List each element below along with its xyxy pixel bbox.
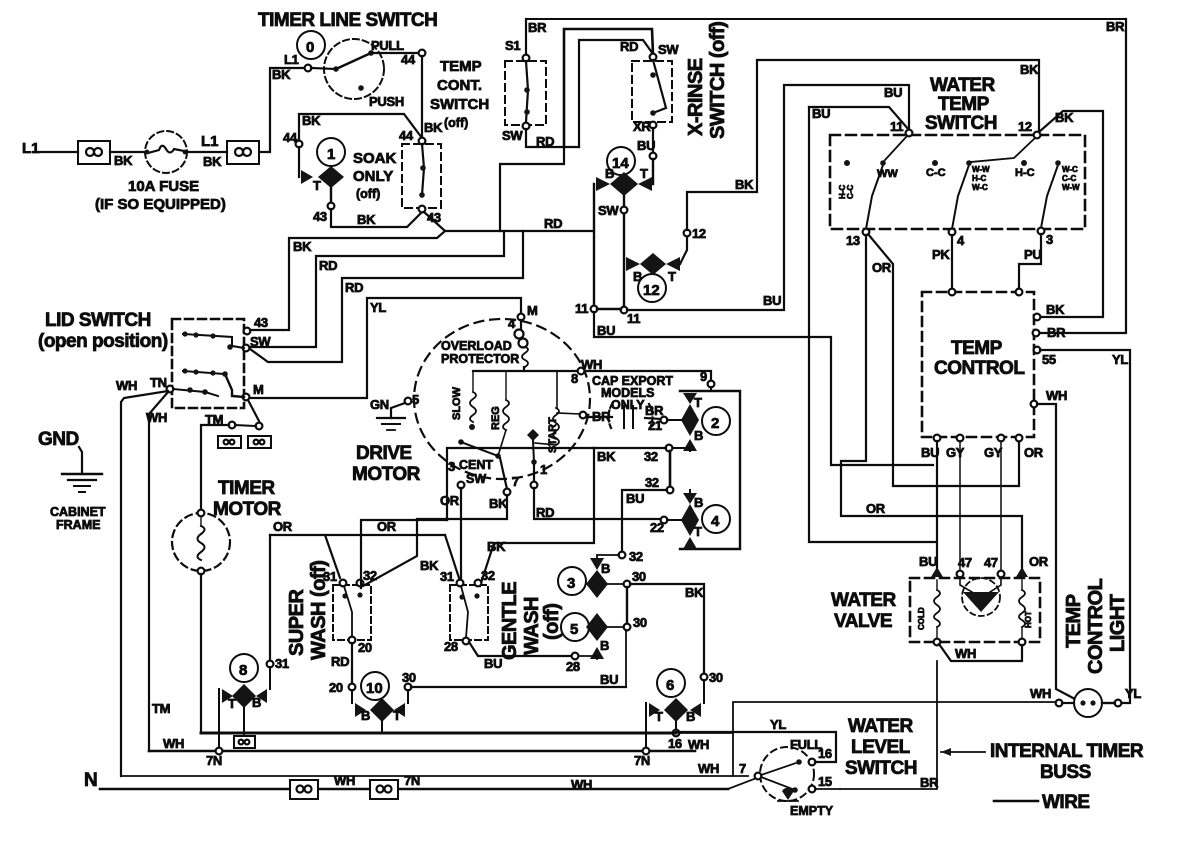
lid switch arm 2 <box>183 371 225 374</box>
wire bus to light <box>679 702 1056 733</box>
svg-text:T: T <box>228 696 236 711</box>
wire 30 to BU riser <box>411 686 626 688</box>
temp control bottom contacts <box>934 435 941 442</box>
wire RD run 2 <box>250 231 523 362</box>
svg-text:L1: L1 <box>284 52 299 67</box>
wire BK 32 <box>594 447 666 449</box>
svg-text:GND: GND <box>38 429 79 450</box>
valve 47 terminals <box>957 571 964 578</box>
flag 6 <box>703 680 705 703</box>
wire cent arm to 7 <box>500 458 507 489</box>
flag 12 (timer contact) <box>626 257 640 271</box>
wire inner loop <box>564 29 653 147</box>
node 7N right <box>643 748 650 755</box>
timer cam circle 5 <box>561 613 589 641</box>
svg-text:BK: BK <box>272 67 291 82</box>
svg-text:BU: BU <box>637 138 655 153</box>
svg-text:MOTOR: MOTOR <box>352 464 421 485</box>
svg-text:8: 8 <box>571 371 578 386</box>
wire 30 to BK riser <box>630 584 704 674</box>
svg-text:SUPER: SUPER <box>286 589 308 656</box>
empty symbol <box>782 788 795 800</box>
node 32 lower <box>667 487 674 494</box>
svg-text:B: B <box>694 428 703 443</box>
node 55 <box>1034 347 1041 354</box>
svg-text:W-C: W-C <box>972 183 988 192</box>
node WH out <box>1031 401 1038 408</box>
pole 2 arm <box>952 165 969 229</box>
svg-text:C-C: C-C <box>926 167 946 179</box>
wire OR from cent 3 <box>460 488 462 578</box>
svg-text:BR: BR <box>645 403 664 418</box>
wire BK from 7 to super wash 32 <box>363 495 507 586</box>
wire flag14 B drop <box>593 184 595 309</box>
timer cam circle 4 <box>702 505 730 533</box>
svg-text:EMPTY: EMPTY <box>790 804 834 818</box>
svg-text:1: 1 <box>327 146 335 163</box>
node 9 <box>708 381 715 388</box>
node 20 lower <box>349 684 356 691</box>
node 16 full <box>809 759 816 766</box>
wire 21 to flag2 <box>667 419 681 421</box>
svg-text:WATER: WATER <box>831 590 896 611</box>
flag 5 diamond <box>586 613 608 641</box>
svg-text:TM: TM <box>152 701 170 716</box>
svg-text:T: T <box>313 178 321 193</box>
wire valve to WLS frame <box>840 661 937 789</box>
node 11 left <box>591 306 598 313</box>
svg-text:0: 0 <box>306 39 314 56</box>
svg-text:B: B <box>694 495 703 510</box>
node SW lid <box>243 345 250 352</box>
svg-text:7: 7 <box>512 474 519 489</box>
node 32 chain <box>619 552 626 559</box>
svg-text:INTERNAL TIMER: INTERNAL TIMER <box>990 741 1144 762</box>
node 12 <box>684 230 691 237</box>
svg-text:7N: 7N <box>206 753 222 768</box>
wire WH from TN lower <box>149 392 168 751</box>
svg-text:1: 1 <box>540 462 547 477</box>
svg-text:43: 43 <box>254 315 268 330</box>
gentle wash box (dashed) <box>450 585 488 640</box>
node 30 flag6 <box>701 674 708 681</box>
flag 4 B triangle <box>683 493 697 504</box>
svg-text:(open position): (open position) <box>38 331 168 352</box>
pole 1 bullet <box>844 160 850 166</box>
wire PU <box>1019 234 1041 292</box>
wire RD 20 drop <box>351 643 353 684</box>
svg-text:TEMP: TEMP <box>440 58 482 75</box>
svg-text:47: 47 <box>984 555 998 570</box>
svg-text:TIMER LINE SWITCH: TIMER LINE SWITCH <box>258 10 437 31</box>
soak switch arm <box>422 144 424 195</box>
svg-text:4: 4 <box>711 513 720 530</box>
wire BU drop <box>652 159 654 184</box>
wire XR to BU node <box>652 128 654 153</box>
wls arm full <box>761 762 799 775</box>
node 30 chain <box>624 581 631 588</box>
wire 43 to soak switch <box>331 209 422 227</box>
svg-text:WH: WH <box>1046 388 1067 403</box>
ground wire <box>79 447 82 474</box>
wire BR riser <box>1040 19 1126 333</box>
mixing chamber (dashed circle) <box>962 578 1000 616</box>
wire BU long riser <box>809 107 936 542</box>
svg-text:TEMP: TEMP <box>951 338 1003 359</box>
wire L1 feed <box>33 151 78 153</box>
connector CO2 <box>227 141 259 164</box>
svg-text:RD: RD <box>319 258 337 273</box>
x-rinse switch arm <box>653 60 666 113</box>
gentle switch arm <box>461 586 468 638</box>
wire WH valve bottom <box>939 644 1022 661</box>
svg-text:REG: REG <box>490 406 502 430</box>
svg-text:GY: GY <box>946 445 965 460</box>
node 31 flag8 <box>267 661 274 668</box>
wire left drop <box>500 147 564 231</box>
svg-text:BU: BU <box>626 491 644 506</box>
wire legend sample <box>994 800 1038 803</box>
connector box flag8 <box>234 736 255 748</box>
svg-text:PUSH: PUSH <box>369 94 404 109</box>
svg-text:BK: BK <box>735 177 754 192</box>
wire OR from 13 to temp control <box>868 234 1019 486</box>
wire GY drop 2 <box>1000 441 1002 571</box>
svg-text:16: 16 <box>668 736 682 751</box>
svg-text:10: 10 <box>366 680 383 697</box>
wire WH bus <box>149 750 695 753</box>
svg-text:YL: YL <box>770 717 786 732</box>
svg-text:4: 4 <box>508 316 516 331</box>
temp control top contacts <box>949 289 956 296</box>
svg-text:WH: WH <box>688 737 709 752</box>
svg-text:OR: OR <box>273 519 293 534</box>
node 4 <box>949 229 956 236</box>
svg-text:OR: OR <box>1024 445 1044 460</box>
svg-text:47: 47 <box>958 555 972 570</box>
svg-text:44: 44 <box>399 128 414 143</box>
svg-text:FRAME: FRAME <box>56 518 100 532</box>
svg-text:SW: SW <box>466 472 486 486</box>
connector TM boxes <box>218 436 241 448</box>
wire 32 branch to gentle <box>480 448 594 586</box>
svg-text:BR: BR <box>528 20 547 35</box>
svg-text:BU: BU <box>600 672 618 687</box>
wire 32 link <box>669 451 672 487</box>
wire pull to 44 riser <box>371 52 419 54</box>
x-rinse switch box (dashed) <box>632 61 672 122</box>
svg-text:YL: YL <box>1112 352 1128 367</box>
svg-text:BU: BU <box>597 323 615 338</box>
svg-text:WASH: WASH <box>521 597 543 655</box>
svg-text:12: 12 <box>1018 119 1032 134</box>
lid switch contact bar <box>232 346 244 348</box>
svg-text:BK: BK <box>302 113 321 128</box>
svg-text:3: 3 <box>567 575 575 592</box>
connector CO1 <box>78 141 110 164</box>
timer motor top contact <box>198 510 205 517</box>
wire BU from 11 to riser <box>627 85 909 310</box>
svg-text:W-W: W-W <box>1062 183 1080 192</box>
svg-text:10A FUSE: 10A FUSE <box>128 178 199 195</box>
node 22 <box>661 517 668 524</box>
svg-text:TEMP: TEMP <box>1063 594 1085 648</box>
svg-text:T: T <box>655 709 663 724</box>
svg-text:31: 31 <box>440 569 454 584</box>
wire 43 to RD run <box>424 212 445 231</box>
svg-text:32: 32 <box>363 568 377 583</box>
svg-text:SWITCH: SWITCH <box>430 96 489 113</box>
svg-text:CONTROL: CONTROL <box>934 358 1025 379</box>
svg-text:SLOW: SLOW <box>451 386 463 420</box>
node BR out <box>1033 330 1040 337</box>
svg-text:32: 32 <box>644 449 658 464</box>
wire PK <box>951 235 953 292</box>
svg-text:20: 20 <box>358 640 372 655</box>
node 7 wls <box>755 773 762 780</box>
connector N box 2 <box>370 780 398 799</box>
bus N <box>100 788 728 791</box>
svg-text:2: 2 <box>711 415 719 432</box>
svg-text:GENTLE: GENTLE <box>499 582 521 660</box>
svg-text:30: 30 <box>402 670 416 685</box>
node 32 upper <box>666 445 673 452</box>
node 43 <box>328 203 335 210</box>
node 7N left <box>216 748 223 755</box>
valve bottom contacts <box>934 639 941 646</box>
svg-text:TIMER: TIMER <box>218 478 275 499</box>
svg-text:WH: WH <box>698 761 719 776</box>
wire 11 stub <box>885 136 907 160</box>
wire OR to 31 flag8 <box>269 535 271 661</box>
svg-text:TN: TN <box>150 375 167 390</box>
wire 28 to 5 <box>469 642 572 656</box>
timer cam circle 2 <box>702 407 730 435</box>
node BU <box>650 153 657 160</box>
node 12 watertemp <box>1034 132 1041 139</box>
timer motor coil <box>200 516 202 526</box>
fuse F1 10A <box>145 131 187 173</box>
flag 3 diamond <box>586 570 608 598</box>
svg-text:X-RINSE: X-RINSE <box>685 58 707 136</box>
svg-text:B: B <box>601 561 610 576</box>
svg-text:22: 22 <box>650 520 664 535</box>
node 20 super <box>349 637 356 644</box>
wire TM to timer motor <box>201 425 229 511</box>
wire BU drop <box>936 441 938 571</box>
wire BU vertical <box>625 630 627 687</box>
svg-text:C-C: C-C <box>846 185 855 199</box>
svg-text:BK: BK <box>1020 62 1039 77</box>
svg-text:15: 15 <box>818 774 832 789</box>
temp cont switch box (dashed) <box>505 61 546 125</box>
pole 2 bullet <box>932 160 938 166</box>
svg-text:DRIVE: DRIVE <box>356 443 412 464</box>
wire YL from 55 <box>1040 350 1130 703</box>
svg-text:55: 55 <box>1042 352 1056 367</box>
svg-text:(off): (off) <box>444 116 468 130</box>
svg-text:SW: SW <box>658 42 679 57</box>
svg-text:VALVE: VALVE <box>834 611 892 632</box>
temp control box (dashed) <box>922 292 1034 437</box>
svg-text:BU: BU <box>763 293 781 308</box>
flag 5 T triangle <box>590 647 604 659</box>
svg-text:WH: WH <box>334 773 355 788</box>
svg-text:C-C: C-C <box>1062 174 1076 183</box>
wire 44 riser down to soak switch <box>421 56 423 138</box>
wire pole2 top link <box>971 138 1035 162</box>
svg-text:WH: WH <box>116 378 137 393</box>
svg-text:WH: WH <box>955 646 976 661</box>
node 32 super <box>357 580 364 587</box>
internal timer buss pointer <box>941 751 985 753</box>
svg-text:RD: RD <box>544 216 562 231</box>
flag 10 <box>351 690 353 703</box>
svg-text:WH: WH <box>1030 686 1051 701</box>
timer cam circle 1 <box>317 138 345 166</box>
svg-text:32: 32 <box>645 475 659 490</box>
svg-text:LEVEL: LEVEL <box>851 737 911 758</box>
valve BU terminal <box>931 567 943 577</box>
svg-text:OR: OR <box>377 519 397 534</box>
svg-text:CONTROL: CONTROL <box>1085 578 1107 674</box>
svg-text:L1: L1 <box>22 140 40 157</box>
svg-text:YL: YL <box>370 300 386 315</box>
svg-text:43: 43 <box>313 209 327 224</box>
flag 8 <box>269 667 271 689</box>
node 3 <box>1038 228 1045 235</box>
pole 3 arm <box>1041 165 1058 228</box>
wls arm empty <box>761 777 795 790</box>
svg-text:BK: BK <box>357 212 376 227</box>
svg-text:(IF SO EQUIPPED): (IF SO EQUIPPED) <box>95 196 226 213</box>
svg-text:7N: 7N <box>634 753 650 768</box>
water level switch body (dashed) <box>760 747 814 801</box>
svg-text:3: 3 <box>448 459 455 474</box>
wire flag6 stem <box>675 722 677 730</box>
node BK out <box>1034 314 1041 321</box>
drive motor body (dashed) <box>414 319 590 479</box>
timer cam circle 0 <box>297 31 325 59</box>
wire BK from 12 to temp control <box>1039 111 1103 317</box>
pole 1 arm <box>866 165 883 229</box>
svg-text:BR: BR <box>1106 19 1125 34</box>
svg-text:31: 31 <box>275 656 289 671</box>
wire RD bus <box>445 230 594 232</box>
node 28 gentle <box>463 638 470 645</box>
wire flag14 SW drop <box>623 196 625 310</box>
node YL light <box>1115 700 1122 707</box>
timer motor body (dashed) <box>172 513 230 571</box>
svg-text:BU: BU <box>484 656 502 671</box>
overload protector coil <box>520 320 522 329</box>
soak switch box (dashed) <box>402 144 441 208</box>
svg-text:T: T <box>668 269 676 284</box>
svg-text:BK: BK <box>424 120 443 135</box>
temp cont switch arm <box>526 61 528 122</box>
svg-text:BR: BR <box>920 775 939 790</box>
node 7 <box>504 489 511 496</box>
timer cam circle 6 <box>657 669 685 697</box>
node XR <box>650 122 657 129</box>
svg-text:SOAK: SOAK <box>353 150 397 167</box>
wire fuse to connector <box>187 151 227 153</box>
svg-text:5: 5 <box>412 392 419 407</box>
svg-text:31: 31 <box>323 569 337 584</box>
svg-text:BK: BK <box>1055 110 1074 125</box>
node 11 watertemp <box>906 130 913 137</box>
svg-text:ONLY: ONLY <box>611 398 645 412</box>
capacitor symbol <box>609 404 613 430</box>
node 32 gentle <box>475 580 482 587</box>
svg-text:SW: SW <box>502 128 523 143</box>
wire timer motor to bus <box>200 574 202 733</box>
svg-text:CABINET: CABINET <box>50 505 106 519</box>
contact L1 <box>305 65 312 72</box>
svg-text:M: M <box>253 382 264 397</box>
svg-text:SWITCH (off): SWITCH (off) <box>707 22 729 139</box>
svg-text:11: 11 <box>890 119 903 134</box>
svg-text:RD: RD <box>331 654 349 669</box>
node 43 soak <box>419 206 426 213</box>
node 28 <box>572 653 579 660</box>
svg-text:WH: WH <box>146 410 167 425</box>
svg-text:12: 12 <box>643 282 660 299</box>
svg-text:H-C: H-C <box>972 174 986 183</box>
node 3 cent <box>458 482 465 489</box>
wire 32 net riser <box>447 448 594 520</box>
lid switch arm TN <box>173 389 205 392</box>
svg-text:B: B <box>600 638 609 653</box>
flag 2 B triangle <box>683 439 697 451</box>
super switch arm <box>344 586 352 637</box>
timer cam circle 10 <box>361 672 389 700</box>
svg-text:SWITCH: SWITCH <box>925 113 997 134</box>
svg-text:3: 3 <box>1046 232 1053 247</box>
svg-text:28: 28 <box>444 639 458 654</box>
svg-text:BK: BK <box>685 585 704 600</box>
svg-text:OR: OR <box>866 501 886 516</box>
svg-text:5: 5 <box>570 621 578 638</box>
svg-text:H-C: H-C <box>1015 167 1035 179</box>
svg-text:TEMP: TEMP <box>938 94 990 115</box>
super wash box (dashed) <box>333 585 371 640</box>
wire L1 riser <box>259 68 308 152</box>
svg-text:B: B <box>686 709 695 724</box>
wire OR diag to gentle 31 <box>445 535 459 578</box>
svg-text:BK: BK <box>1046 302 1065 317</box>
timer cam circle 3 <box>558 567 586 595</box>
timer motor bottom contact <box>198 568 205 575</box>
node 11 right <box>621 307 628 314</box>
wire 15 to frame <box>815 788 840 790</box>
timer line switch body (dashed) <box>324 39 384 99</box>
node WH light <box>1056 700 1063 707</box>
wire 30 bar down <box>626 587 628 624</box>
node 43 lid <box>244 328 251 335</box>
svg-text:30: 30 <box>709 670 723 685</box>
flag 4 diamond <box>681 504 699 536</box>
wire 32 super riser <box>361 520 447 588</box>
water valve box (dashed) <box>910 578 1040 642</box>
svg-text:BK: BK <box>489 496 508 511</box>
svg-text:S1: S1 <box>505 38 520 53</box>
switch arm PULL <box>333 66 339 72</box>
wire 11 bar <box>597 308 621 310</box>
svg-text:WW: WW <box>877 168 898 180</box>
node SW <box>523 123 530 130</box>
svg-text:PU: PU <box>1024 247 1041 262</box>
